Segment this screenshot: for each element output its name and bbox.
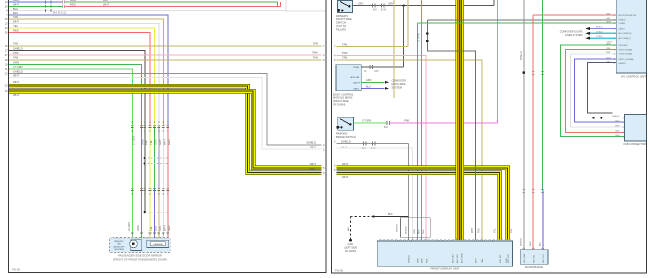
wire CAN H GRN with arrow [361,81,384,83]
svg-text:MIC SIG: MIC SIG [500,254,502,263]
svg-text:OF DASH): OF DASH) [333,103,346,107]
wire PNK horizontal y55.3 with corner down [337,55,427,239]
svg-text:LIGHTING): LIGHTING) [114,249,124,251]
svg-text:BLU: BLU [366,85,371,88]
wire LT GRN y69 corner down [9,69,132,126]
svg-text:GRN: GRN [414,229,416,234]
svg-text:SHIELD: SHIELD [409,255,411,263]
svg-text:AUX GND: AUX GND [461,253,464,263]
shielded wire thick yellow BLK core vertical [458,0,461,240]
svg-text:TAN: TAN [478,228,481,233]
svg-text:SHIELD: SHIELD [520,51,523,60]
svg-text:LT GRN: LT GRN [362,119,371,123]
svg-text:RED: RED [70,3,76,7]
USB connector box [625,115,647,142]
svg-text:SHIELD: SHIELD [397,224,399,232]
svg-text:CAN H: CAN H [353,81,360,84]
wire RED vertical x421.4 full height [420,0,422,240]
camera box [147,240,169,247]
svg-text:MICROPHONE: MICROPHONE [525,265,543,269]
wire GRY vertical x158.8 segment [158,126,160,189]
svg-text:USB D SIGNAL: USB D SIGNAL [619,49,634,52]
wire YEL row y28.0 with corner down [9,28,154,126]
splice ticks row1 [45,1,47,4]
svg-text:PILLAR): PILLAR) [336,27,346,31]
svg-text:CAMERA: CAMERA [153,243,163,246]
svg-text:CAN L: CAN L [353,87,360,90]
svg-text:SWITCH: SWITCH [336,21,346,25]
svg-text:BLU: BLU [607,57,611,59]
wire RED segment row2 [65,2,280,6]
svg-text:W BLU: W BLU [596,27,603,29]
right panel border bottom [332,272,647,274]
svg-text:RED: RED [167,225,171,231]
svg-text:TAN: TAN [13,56,18,60]
svg-text:SHIELD: SHIELD [341,140,351,144]
svg-text:GRN: GRN [606,22,611,24]
shield drain dot lower on BLK [144,162,146,164]
wire BLU USB D+ SIGNAL path [575,59,625,122]
shield drain dashed line at y212 [145,211,168,213]
svg-text:B-8: B-8 [384,126,388,129]
wire WHT row3 shield [9,10,287,12]
svg-text:WHT: WHT [13,93,19,97]
wire BLU vertical x154.4 lower segment [153,189,155,239]
svg-text:SHIELD: SHIELD [612,116,620,118]
right panel border left [331,0,333,274]
svg-text:SHIELD: SHIELD [405,226,407,234]
svg-text:PNK: PNK [342,51,348,55]
wire WHT vertical x163.3 lower segment [162,126,164,240]
svg-text:BLU: BLU [616,120,620,122]
svg-text:GRN: GRN [136,225,140,231]
svg-text:WHT: WHT [615,125,620,127]
svg-text:WHT: WHT [342,162,348,166]
svg-text:GRY: GRY [606,62,611,64]
svg-text:P/TAIL: P/TAIL [353,66,360,69]
wire BLU segment row1 [9,1,63,3]
svg-text:B-5: B-5 [373,9,377,12]
wire BLK y50.5 corner down [9,51,145,127]
svg-text:(RIGHT SIDE: (RIGHT SIDE [333,99,349,103]
left panel border bottom [9,272,327,274]
svg-text:B-14: B-14 [381,9,387,12]
svg-text:RED: RED [606,13,611,15]
svg-text:BLU: BLU [540,241,542,246]
svg-text:GRN: GRN [366,79,372,82]
svg-text:(BLIND-SPT: (BLIND-SPT [113,246,125,248]
svg-text:TAN: TAN [342,42,347,46]
wire GRY shield vertical x523.8 [523,0,525,250]
svg-text:YEL: YEL [494,228,497,233]
wire CAN H into AV unit with arrow [590,28,617,30]
svg-text:SYSTEM: SYSTEM [392,86,402,89]
svg-text:GRN: GRN [13,0,19,2]
svg-text:YEL: YEL [510,228,513,233]
front display unit pin teeth [379,240,381,241]
svg-text:PNK: PNK [404,119,410,123]
svg-text:MIC VCC: MIC VCC [543,254,545,263]
svg-text:GRY: GRY [158,139,162,145]
shield drain dot upper on BLK [144,157,146,159]
shielded wire thick yellow lower from gap [337,173,500,240]
svg-text:LINES SYSTEM: LINES SYSTEM [565,34,582,37]
shielded wire thick yellow RED core vertical [455,0,464,240]
wire LT GRN vertical x132.3 lower [131,126,133,240]
svg-text:RED: RED [615,131,620,133]
svg-text:RED: RED [530,241,532,246]
wire GRN segment row1 [65,2,277,6]
in-line connector row y126 (8 pins) [131,124,134,126]
svg-text:TAN: TAN [13,42,18,46]
splice on shield wire [363,142,365,146]
svg-text:(FRONT OF FRONT PASSENGER'S DO: (FRONT OF FRONT PASSENGER'S DOOR) [113,258,167,262]
svg-text:BLK: BLK [144,140,148,145]
wire GRN COMM horizontal y24.4 [417,22,616,24]
wire TAN vertical x408 from top [407,0,409,46]
pin marks on dark gray vertical [426,32,429,34]
front display unit box [377,241,512,266]
svg-text:FRONT SIDE: FRONT SIDE [336,17,352,21]
svg-text:WHT: WHT [163,225,167,231]
ground dashed wire vertical [350,217,352,240]
svg-text:MIC SIG: MIC SIG [533,254,535,262]
parking brake switch box [338,117,354,130]
shield drain dashed line lower [145,163,168,165]
wire GRN segment row2 left [9,5,63,7]
shield drain dashed line upper [145,157,168,159]
splice connector row2 [61,5,63,8]
svg-text:AV COMM (L): AV COMM (L) [619,37,632,40]
wire RED vertical x533.2 [532,15,534,250]
svg-text:MEMORY: MEMORY [115,241,125,243]
junction dot door switch wire [402,5,404,7]
svg-text:PNK: PNK [312,51,318,55]
wire GRY dark path from AV unit corner [427,20,475,240]
svg-text:AUX DET: AUX DET [452,253,455,263]
svg-text:PN-06: PN-06 [12,268,20,272]
svg-text:BLU: BLU [13,7,18,11]
svg-text:GRN: GRN [141,139,145,145]
wire TAN row y19.1 with corner down [9,19,163,126]
wire SHIELD dark path to USB connector [587,63,616,113]
svg-text:USB D+ SIGNAL: USB D+ SIGNAL [619,58,635,61]
wire TAN horizontal y59.8 with corner down x481.8 [337,60,482,240]
svg-text:SHIELD: SHIELD [521,238,523,246]
faint component box outline top right [285,0,287,11]
svg-text:BLK: BLK [348,226,350,231]
wire GRY long horizontal y19.8 [427,19,616,21]
svg-text:WHT: WHT [342,175,348,179]
splice on door switch wire [372,4,374,8]
svg-text:LT GRN: LT GRN [418,33,421,42]
svg-text:PARKING: PARKING [336,132,347,136]
mic wires connector row y73 [522,71,525,74]
shielded wire thick yellow A (outer) [9,86,322,172]
svg-text:RED: RED [13,28,19,32]
svg-text:GRN: GRN [418,258,420,263]
svg-text:WHT: WHT [310,162,316,166]
svg-text:WHT: WHT [310,145,316,149]
shielded wire thick yellow upper from gap [337,168,508,240]
camera inner rect [150,242,165,246]
wire AV COMM L cyan with arrow [590,37,617,39]
svg-text:A/V CONTROL UNIT: A/V CONTROL UNIT [621,75,646,79]
svg-text:AUX SIG: AUX SIG [456,254,459,263]
wire TAN vertical x158.8 lower segment [158,189,160,239]
svg-text:YEL: YEL [149,226,153,231]
shield drain end dot on BLK [144,211,146,213]
svg-text:WHT: WHT [13,3,19,7]
mirror connector pin teeth [112,237,114,238]
wire AV COMM H cyan with arrow [590,32,617,34]
wire WHT V BUS SIGNAL path [571,54,625,127]
mirror actuator motor box [131,240,142,251]
svg-text:SHIELD: SHIELD [13,69,23,73]
svg-text:BLU: BLU [103,0,108,2]
wire TAN y59.8 to right edge [9,59,322,61]
svg-text:FRONT DISPLAY UNIT: FRONT DISPLAY UNIT [430,267,460,271]
parking brake switch lever [340,119,350,125]
svg-text:LT GRN: LT GRN [13,65,23,69]
wire PNK magenta from splice to corner up [390,122,498,124]
wire RED microphone sig horizontal [533,14,616,16]
svg-text:TAN: TAN [313,41,318,45]
wire WHT inner shield right panel [337,148,413,240]
wire RED USB D SIGNAL path [566,50,625,133]
A/V control unit box [616,0,646,73]
svg-text:WHT: WHT [471,227,474,233]
wire CAN L BLU with arrow [361,87,384,89]
svg-text:AUX JAT: AUX JAT [351,76,360,79]
svg-text:MIC VCC: MIC VCC [508,253,510,263]
svg-text:PNK: PNK [426,258,428,263]
splice on audio unit wire [369,65,371,69]
passenger door mirror dashed enclosure [110,238,171,253]
svg-text:BODY CONTROL: BODY CONTROL [333,92,354,96]
svg-text:PN-06: PN-06 [335,269,343,273]
svg-text:WHT: WHT [13,73,19,77]
svg-text:V BUS SIGNAL: V BUS SIGNAL [619,53,634,56]
wire PNK magenta vertical x497.3 [496,0,498,123]
wire GRN vertical x542.5 [542,0,544,191]
wire WHT inner shield path [9,77,322,149]
shield connector rectangle above display unit [401,218,431,238]
junction dot ground wire [372,215,374,217]
svg-text:TAN: TAN [13,15,18,19]
svg-text:BLU: BLU [13,11,18,15]
wire RED row y32.4 with corner down [9,32,150,126]
svg-text:WHT: WHT [163,139,167,145]
microphone box [520,250,548,264]
wire BLU vertical x542.8 lower [542,191,544,250]
svg-text:SHIELD: SHIELD [619,63,627,65]
svg-text:GRN: GRN [154,139,158,145]
wire PNK y55.1 to right edge [9,54,322,56]
wire GRN y64.5 corner down [9,65,141,127]
svg-text:WHT: WHT [310,167,316,171]
svg-text:OF DASH): OF DASH) [345,250,357,253]
wire BLK horizontal into audio unit [361,66,403,68]
mirror actuator motor circle [130,240,138,248]
svg-text:LT BLU: LT BLU [596,36,603,38]
svg-text:GND: GND [506,258,508,263]
svg-text:GRN: GRN [615,135,620,137]
svg-text:PNK: PNK [423,229,425,234]
wire BLU row y14.8 with corner down [9,15,168,126]
svg-text:WHT: WHT [476,257,478,263]
wire TAN y45.8 to right edge [9,45,322,47]
left panel border left [8,0,10,273]
audio unit box [336,65,361,91]
svg-text:GRY: GRY [606,18,611,20]
splice ticks row3 [45,9,47,12]
wire WHT row y23.6 with corner down [9,24,159,126]
svg-text:YEL: YEL [149,140,153,145]
wire TAN horizontal y46.4 [337,45,409,47]
wire RED vertical x167.8 lower segment [167,126,169,240]
svg-text:CAN H: CAN H [619,27,626,30]
wire BLK vertical drop to audio unit [403,6,405,67]
svg-text:TAN: TAN [481,258,484,263]
svg-text:B-6 W 2-12: B-6 W 2-12 [53,11,67,15]
wire GRN USB GND path [561,45,625,137]
left panel border right [325,0,327,273]
svg-text:TAN: TAN [342,56,347,60]
svg-text:GRN: GRN [13,60,19,64]
in-line connector row y189 (8 pins) [131,187,134,189]
svg-text:LT GRN: LT GRN [132,136,136,145]
svg-text:WHT: WHT [103,3,109,7]
svg-text:GRN: GRN [606,43,611,45]
wire GRY shield vertical x408.3 [407,144,409,240]
right panel border right [645,0,647,274]
splice dots on USB shield wire [593,117,595,119]
svg-text:GRY: GRY [358,2,364,6]
shielded wire thick yellow B (inner) [9,91,322,168]
svg-text:MODULE (BCM): MODULE (BCM) [333,96,352,100]
splice ticks row2 [45,5,47,8]
connector symbols above mirror box [131,232,134,234]
door switch lever [340,2,349,7]
svg-text:WHT: WHT [606,52,611,54]
svg-text:TAN: TAN [313,55,318,59]
svg-text:LT BLU: LT BLU [596,31,603,33]
svg-text:GRN: GRN [70,0,76,2]
svg-text:LT GRN: LT GRN [127,222,131,231]
splice connector row1 [61,1,63,4]
svg-text:AV COMM (H): AV COMM (H) [619,32,632,35]
wire BLK corner up x494 [493,0,495,6]
svg-text:RED: RED [419,229,421,234]
wire YEL vertical x149.9 below connector [149,126,151,240]
svg-text:USB GND: USB GND [619,45,629,47]
splice parking brake wire [386,121,388,125]
svg-text:SHIELD: SHIELD [13,46,23,50]
svg-text:BLU: BLU [154,226,158,231]
svg-text:(CUT 'M': (CUT 'M' [336,24,347,28]
svg-text:COMM: COMM [619,23,626,25]
wire LT GRN from parking brake switch [354,122,387,124]
svg-text:RED: RED [422,258,424,263]
wire BLK from door switch [353,5,495,7]
svg-text:MICROPHONE SIG: MICROPHONE SIG [619,15,637,17]
svg-text:GRY: GRY [388,2,394,6]
wire GRN vertical x417 from corner [416,23,418,239]
wire GRN vertical x141.4 lower [140,126,142,240]
svg-text:TAN: TAN [158,226,162,231]
svg-text:WHT: WHT [13,80,19,84]
svg-text:YEL: YEL [13,24,19,28]
svg-text:PASSENGER SIDE DOOR MIRROR: PASSENGER SIDE DOOR MIRROR [118,254,162,258]
svg-text:LHD: LHD [117,244,122,246]
wire BLK vertical x144.8 lower [144,126,146,212]
ground dashed wire horizontal [351,216,374,218]
wire TAN vertical x394 [393,0,395,98]
svg-text:SHIELD: SHIELD [619,20,627,22]
wire GRY shield horizontal y143.6 right panel [337,143,409,145]
svg-text:DRIVER'S: DRIVER'S [336,14,348,18]
svg-text:RED: RED [167,139,171,145]
svg-text:BLK: BLK [388,213,393,216]
wire GRY shield path to right edge [9,74,322,146]
mic wires connector row y191 [522,189,525,191]
microphone connector teeth [523,248,525,249]
driver door switch box [338,1,353,13]
svg-text:RED: RED [606,48,611,50]
svg-text:USB CONNECTOR: USB CONNECTOR [623,142,646,146]
svg-text:MIC GND: MIC GND [524,253,526,263]
svg-text:WHT: WHT [13,20,19,24]
wire GRN vertical x154.4 segment [153,126,155,189]
svg-text:SHIELD: SHIELD [306,140,316,144]
ground symbol G401 [349,239,352,242]
svg-text:PNK: PNK [13,51,19,55]
svg-text:BRAKE SWITCH: BRAKE SWITCH [336,135,356,139]
wire BLK ground solid segment [374,216,409,218]
svg-text:GRY: GRY [374,71,379,73]
